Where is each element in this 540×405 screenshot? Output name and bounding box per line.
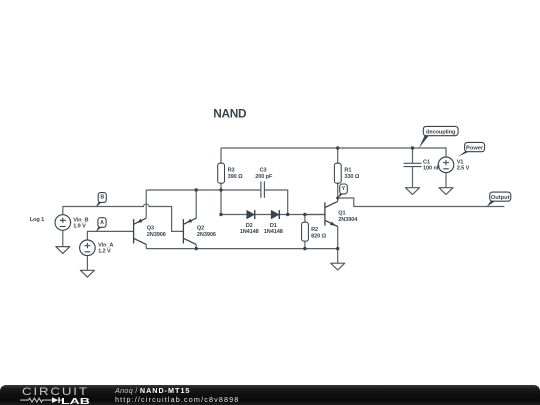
svg-text:2N3906: 2N3906 (197, 232, 216, 238)
svg-text:2.5 V: 2.5 V (457, 166, 470, 172)
svg-text:1.9 V: 1.9 V (73, 224, 86, 230)
svg-text:Vin_A: Vin_A (98, 242, 113, 248)
svg-text:Vin_B: Vin_B (73, 217, 88, 223)
svg-text:NAND: NAND (213, 106, 247, 120)
svg-text:Log 1: Log 1 (30, 217, 44, 223)
svg-text:R2: R2 (311, 227, 318, 233)
svg-text:100 nF: 100 nF (423, 166, 441, 172)
svg-text:Y: Y (342, 186, 346, 192)
svg-text:1.2 V: 1.2 V (98, 249, 111, 255)
svg-text:Power: Power (466, 145, 484, 151)
svg-text:decoupling: decoupling (426, 129, 456, 135)
svg-text:R1: R1 (344, 168, 351, 174)
svg-text:B: B (100, 195, 104, 201)
svg-text:2N3906: 2N3906 (147, 232, 166, 238)
svg-text:Output: Output (491, 195, 510, 201)
svg-text:200 pF: 200 pF (255, 174, 273, 180)
svg-text:330 Ω: 330 Ω (344, 174, 359, 180)
svg-text:A: A (100, 220, 104, 226)
svg-text:1N4148: 1N4148 (240, 229, 259, 235)
svg-text:C3: C3 (260, 168, 267, 174)
svg-text:2N3904: 2N3904 (338, 217, 358, 223)
svg-text:Q1: Q1 (338, 210, 345, 216)
svg-text:R3: R3 (228, 168, 235, 174)
svg-text:820 Ω: 820 Ω (311, 233, 326, 239)
svg-text:Q3: Q3 (147, 225, 154, 231)
svg-text:390 Ω: 390 Ω (228, 174, 243, 180)
svg-text:Q2: Q2 (197, 225, 204, 231)
svg-text:1N4148: 1N4148 (264, 229, 283, 235)
